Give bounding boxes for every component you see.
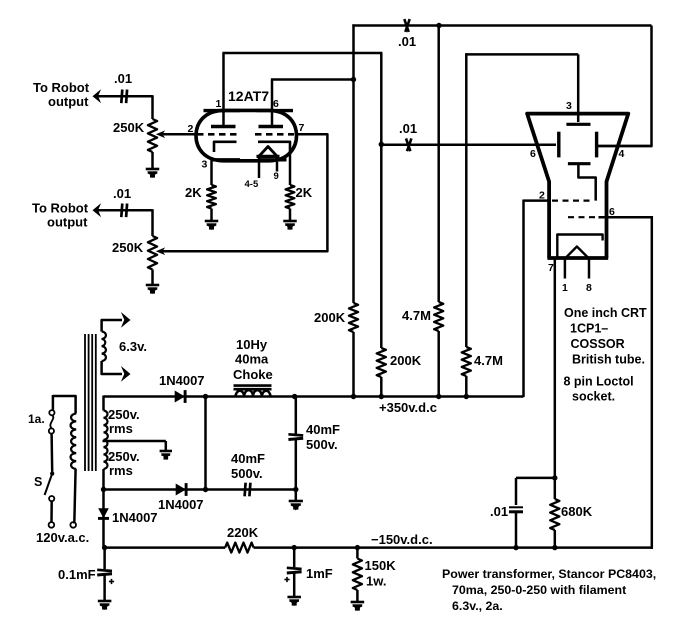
12AT7 cathode (left) <box>214 142 237 152</box>
svg-text:1: 1 <box>216 98 222 110</box>
svg-text:250v.: 250v. <box>108 407 140 422</box>
wire (pin4 stub) <box>598 145 652 148</box>
node <box>101 487 106 492</box>
svg-text:British tube.: British tube. <box>572 353 645 367</box>
svg-text:10Hy: 10Hy <box>236 337 268 352</box>
wire (.01 to CRT plate) <box>381 144 556 147</box>
svg-text:250v.: 250v. <box>108 449 140 464</box>
wire (lower rect wire) <box>104 488 296 491</box>
transformer secondary winding <box>104 411 108 470</box>
wire (CRT pin3 feed) <box>465 53 468 347</box>
CRT heater <box>565 247 589 259</box>
wire <box>295 440 298 501</box>
wire (1mF branch) <box>293 548 296 567</box>
CRT cathode assembly <box>557 235 602 259</box>
wire <box>356 590 359 602</box>
arrow 6.3v bottom <box>121 366 131 382</box>
capacitor 40mF C7 <box>288 434 303 435</box>
svg-text:40mF: 40mF <box>231 451 265 466</box>
wire <box>289 209 292 222</box>
wire <box>380 377 383 397</box>
resistor 680K R9 <box>550 499 559 530</box>
wire (rectifier join) <box>204 395 207 489</box>
arrow 6.3v top <box>121 312 131 328</box>
svg-text:7: 7 <box>299 122 305 134</box>
CRT deflection plate (pin4) <box>595 132 598 158</box>
node <box>379 394 384 399</box>
node <box>292 545 297 550</box>
ground <box>289 500 303 503</box>
node <box>351 77 356 82</box>
resistor 200K R5 <box>349 303 358 332</box>
svg-text:12AT7: 12AT7 <box>228 88 269 104</box>
wire (right drop to -150 bus) <box>651 216 654 549</box>
wire (4.7M top) <box>437 26 440 303</box>
wire <box>210 209 213 222</box>
svg-text:socket.: socket. <box>572 390 615 404</box>
svg-text:rms: rms <box>109 463 133 478</box>
svg-text:150K: 150K <box>365 558 397 573</box>
svg-text:40ma: 40ma <box>235 352 269 367</box>
wire (pin1 lead) <box>222 53 225 126</box>
12AT7 grid (pin2) dashed <box>197 133 240 136</box>
pot R2 wiper arrow <box>156 247 165 255</box>
svg-text:200K: 200K <box>390 353 422 368</box>
resistor 150K R11 <box>353 559 362 591</box>
ground <box>283 220 297 223</box>
node <box>436 394 441 399</box>
svg-text:2K: 2K <box>296 185 313 200</box>
svg-text:Choke: Choke <box>233 367 273 382</box>
capacitor 1mF C9 <box>287 568 302 569</box>
svg-text:250K: 250K <box>112 240 144 255</box>
wire (cathode to 2K) <box>289 152 292 185</box>
svg-text:COSSOR: COSSOR <box>571 337 625 351</box>
node <box>203 487 208 492</box>
wire <box>50 434 53 472</box>
svg-text:6: 6 <box>530 148 536 160</box>
transformer primary winding <box>71 414 77 470</box>
wire (pin6 lower dashed) <box>568 216 600 218</box>
svg-text:6.3v., 2a.: 6.3v., 2a. <box>452 599 503 613</box>
node <box>464 394 469 399</box>
12AT7 grid (pin7) dashed <box>255 133 294 136</box>
svg-text:.01: .01 <box>399 121 417 136</box>
ground <box>351 601 365 604</box>
wire (pin3 lead) <box>210 157 213 185</box>
terminal <box>70 522 76 528</box>
svg-text:40mF: 40mF <box>306 422 340 437</box>
ground <box>146 168 160 171</box>
svg-text:8: 8 <box>586 282 592 294</box>
wire <box>465 376 468 397</box>
svg-text:+350v.d.c: +350v.d.c <box>379 400 437 415</box>
wire <box>437 331 440 397</box>
wire (0.1mF branch) <box>103 548 106 569</box>
12AT7 cathode (right) <box>258 142 290 152</box>
node <box>513 545 518 550</box>
ground <box>160 450 172 453</box>
choke core bars <box>234 384 272 387</box>
wire (pin1 stub) <box>564 259 567 279</box>
switch S <box>50 472 54 476</box>
svg-text:6.3v.: 6.3v. <box>119 339 147 354</box>
potentiometer 250K R1 <box>148 119 157 152</box>
node <box>379 142 384 147</box>
svg-text:output: output <box>47 215 88 230</box>
wire (B+ rail) <box>104 395 524 398</box>
svg-text:220K: 220K <box>227 525 259 540</box>
node <box>552 545 557 550</box>
12AT7 plate (pin1) <box>211 125 236 128</box>
svg-text:200K: 200K <box>314 310 346 325</box>
wire (CRT pin7 down) <box>554 258 557 499</box>
svg-text:9: 9 <box>274 171 279 182</box>
wire <box>515 513 518 548</box>
wire (pin8 stub) <box>588 259 591 279</box>
wire (-150 bus right) <box>254 546 652 549</box>
capacitor .01 C1 <box>121 90 122 104</box>
wire (pin6 lower lead) <box>599 216 653 219</box>
svg-text:120v.a.c.: 120v.a.c. <box>36 530 89 545</box>
svg-text:1w.: 1w. <box>366 574 386 589</box>
diode 1N4007 D3 <box>98 508 109 518</box>
diode 1N4007 D2 <box>176 484 186 496</box>
resistor 2K R3 <box>207 185 216 209</box>
node <box>293 487 298 492</box>
arrow to robot output 1 <box>93 89 102 103</box>
wire (40mF shunt) <box>295 395 298 434</box>
wire (150K branch) <box>356 548 359 559</box>
pot R1 wiper arrow <box>156 130 165 138</box>
arrow to robot output 2 <box>93 203 102 217</box>
wire <box>151 209 154 236</box>
svg-text:500v.: 500v. <box>306 437 338 452</box>
svg-text:.01: .01 <box>113 186 131 201</box>
svg-text:.01: .01 <box>398 34 416 49</box>
svg-text:One inch CRT: One inch CRT <box>564 306 647 320</box>
CRT focus electrode <box>568 162 591 165</box>
svg-text:250K: 250K <box>113 120 145 135</box>
svg-text:−150v.d.c.: −150v.d.c. <box>371 532 433 547</box>
CRT deflection plate (pin6) <box>557 132 560 158</box>
capacitor .01 C4 <box>406 138 410 151</box>
svg-text:3: 3 <box>566 100 572 112</box>
wire (pin6 lead) <box>271 80 274 127</box>
svg-text:1N4007: 1N4007 <box>158 497 204 512</box>
wire <box>293 573 296 596</box>
svg-text:3: 3 <box>202 159 208 171</box>
diode 1N4007 D1 <box>175 391 185 403</box>
12AT7 heater <box>259 147 277 157</box>
CRT envelope <box>527 114 628 258</box>
capacitor .01 C5 <box>509 506 523 508</box>
resistor 200K R6 <box>377 348 386 377</box>
svg-text:680K: 680K <box>561 504 593 519</box>
node <box>355 545 360 550</box>
node <box>552 475 557 480</box>
ground <box>287 596 301 599</box>
terminal <box>49 522 55 528</box>
resistor 4.7M R7 <box>434 302 443 331</box>
svg-text:1a.: 1a. <box>28 412 45 426</box>
svg-text:To Robot: To Robot <box>33 80 90 95</box>
resistor 4.7M R8 <box>462 347 471 376</box>
svg-text:output: output <box>48 94 89 109</box>
svg-text:1CP1–: 1CP1– <box>570 322 608 336</box>
wire (output 2 lead) <box>97 209 153 212</box>
wire (pin2 lead) <box>524 199 551 202</box>
svg-text:Power transformer, Stancor PC8: Power transformer, Stancor PC8403, <box>442 567 656 581</box>
svg-text:1mF: 1mF <box>306 566 333 581</box>
ground <box>146 284 160 287</box>
svg-text:4.7M: 4.7M <box>474 353 503 368</box>
tube 12AT7 envelope <box>196 110 297 160</box>
wire (pin1 bus down) <box>380 53 383 348</box>
node <box>292 394 297 399</box>
wire (center tap) <box>103 440 166 443</box>
resistor 2K R4 <box>286 185 295 209</box>
12AT7 plate (pin6) <box>259 125 284 128</box>
CRT anode plate (pin3) <box>566 123 590 126</box>
svg-text:S: S <box>34 475 42 489</box>
svg-text:4-5: 4-5 <box>245 179 259 190</box>
svg-text:To Robot: To Robot <box>32 201 89 216</box>
wire (pin2 dashed) <box>552 200 592 202</box>
svg-text:8 pin Loctol: 8 pin Loctol <box>564 375 634 389</box>
svg-text:4.7M: 4.7M <box>402 308 431 323</box>
svg-text:70ma, 250-0-250 with filament: 70ma, 250-0-250 with filament <box>452 583 626 597</box>
wire <box>554 530 557 548</box>
svg-text:500v.: 500v. <box>231 466 263 481</box>
inductor choke <box>236 390 271 396</box>
wire <box>151 95 154 119</box>
ground <box>98 600 112 603</box>
potentiometer 250K R2 <box>148 236 157 270</box>
svg-text:1: 1 <box>562 282 568 294</box>
svg-text:.01: .01 <box>114 71 132 86</box>
resistor 220K R10 <box>225 543 253 553</box>
svg-text:1N4007: 1N4007 <box>112 510 158 525</box>
fuse 1a. <box>52 395 55 410</box>
svg-text:2K: 2K <box>185 185 202 200</box>
wire <box>151 270 154 286</box>
wire (output 1 lead) <box>97 95 153 98</box>
svg-text:rms: rms <box>109 421 133 436</box>
capacitor .01 C3 (top rail) <box>404 19 408 32</box>
capacitor .01 C2 <box>121 204 122 218</box>
svg-text:2: 2 <box>188 123 194 135</box>
wire <box>50 501 53 522</box>
node <box>351 394 356 399</box>
wire <box>151 152 154 169</box>
node <box>102 545 107 550</box>
svg-text:4: 4 <box>619 148 625 160</box>
wire (pin2 to +350) <box>522 200 525 398</box>
capacitor 0.1mF C8 <box>97 570 112 571</box>
wire (top rail) <box>352 24 355 303</box>
wire <box>103 575 106 600</box>
node <box>436 23 441 28</box>
wire (.01 branch) <box>516 477 556 480</box>
svg-text:1N4007: 1N4007 <box>159 373 205 388</box>
svg-text:7: 7 <box>548 262 554 274</box>
ground <box>205 220 219 223</box>
wire (-150 bus left) <box>105 546 226 549</box>
capacitor 40mF C6 (series) <box>245 483 246 497</box>
transformer core <box>84 334 86 471</box>
svg-text:.01: .01 <box>490 504 508 519</box>
transformer 6.3v winding <box>102 332 106 362</box>
svg-text:0.1mF: 0.1mF <box>58 567 96 582</box>
svg-text:6: 6 <box>273 98 279 110</box>
wire (R2 wiper to pin 7) <box>162 134 327 251</box>
node <box>203 394 208 399</box>
wire <box>352 332 355 397</box>
